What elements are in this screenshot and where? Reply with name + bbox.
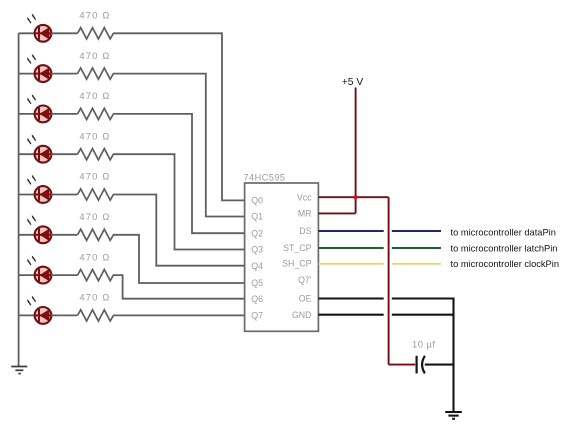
- LED LED2: [27, 54, 51, 82]
- wire: LED3 to resistor R3: [51, 113, 78, 115]
- wire: bus to LED2: [19, 73, 35, 75]
- svg-text:MR: MR: [298, 209, 312, 219]
- wire: R6 to IC pin Q5 (via vertical drop): [113, 235, 245, 283]
- wire: bus to LED7: [19, 274, 35, 276]
- svg-text:Q1: Q1: [251, 212, 263, 222]
- junction: +5V net dot: [354, 195, 358, 199]
- wire: LED5 to resistor R5: [51, 194, 78, 196]
- resistor R7 (470 ohm): [78, 270, 114, 281]
- wire: ground net vertical (black): [452, 298, 454, 412]
- svg-text:to microcontroller latchPin: to microcontroller latchPin: [451, 243, 558, 253]
- svg-text:470 Ω: 470 Ω: [79, 131, 110, 142]
- ground GND1 (left bus ground): [11, 367, 27, 374]
- LED LED4: [27, 134, 51, 162]
- wire: bus to LED6: [19, 234, 35, 236]
- LED LED1: [27, 13, 51, 41]
- wire: R8 to IC pin Q7: [113, 314, 245, 316]
- wire: bus to LED3: [19, 113, 35, 115]
- svg-text:Q6: Q6: [251, 294, 263, 304]
- svg-text:SH_CP: SH_CP: [282, 259, 311, 269]
- LED LED3: [27, 94, 51, 122]
- svg-text:Q4: Q4: [251, 261, 263, 271]
- capacitor C1 plates: [417, 356, 425, 374]
- svg-text:Q2: Q2: [251, 228, 263, 238]
- svg-text:Q7': Q7': [298, 275, 312, 285]
- svg-text:Q5: Q5: [251, 278, 263, 288]
- svg-text:Q3: Q3: [251, 245, 263, 255]
- resistor R1 (470 ohm): [78, 28, 114, 39]
- wire: R7 to IC pin Q6 (via vertical drop): [113, 275, 245, 299]
- svg-text:Q0: Q0: [251, 196, 263, 206]
- wire: SH_CP wire (yellow) to clockPin: [318, 263, 383, 265]
- wire: bus to LED5: [19, 194, 35, 196]
- wire: LED2 to resistor R2: [51, 73, 78, 75]
- wire: red horizontal into capacitor C1 positive plate: [389, 364, 416, 366]
- resistor R3 (470 ohm): [78, 108, 114, 119]
- LED LED6: [27, 215, 51, 243]
- wire: DS wire (blue) to dataPin: [318, 230, 383, 232]
- wire: R5 to IC pin Q4 (via vertical drop): [113, 195, 245, 266]
- svg-text:to microcontroller dataPin: to microcontroller dataPin: [451, 228, 556, 238]
- wire: OE to ground net (black): [318, 297, 383, 299]
- wire: Vcc to red net horizontal: [318, 196, 388, 198]
- wire: capacitor C1 to ground net: [425, 364, 454, 366]
- svg-text:470 Ω: 470 Ω: [79, 212, 110, 223]
- svg-text:470 Ω: 470 Ω: [79, 252, 110, 263]
- wire: bus to LED8: [19, 314, 35, 316]
- wire: MR to +5V horizontal: [318, 212, 355, 214]
- svg-text:470 Ω: 470 Ω: [79, 172, 110, 183]
- ground GND2 (right): [445, 412, 462, 419]
- wire: LED4 to resistor R4: [51, 153, 78, 155]
- svg-text:ST_CP: ST_CP: [283, 243, 311, 253]
- svg-text:74HC595: 74HC595: [244, 172, 286, 182]
- LED LED8: [27, 296, 51, 324]
- svg-text:10 µf: 10 µf: [412, 339, 436, 350]
- wire: LED8 to resistor R8: [51, 314, 78, 316]
- svg-text:GND: GND: [292, 310, 312, 320]
- wire: LED1 to resistor R1: [51, 32, 78, 34]
- svg-text:470 Ω: 470 Ω: [79, 11, 110, 22]
- svg-text:Vcc: Vcc: [297, 192, 312, 202]
- op-amp/IC U1 74HC595 body: [245, 183, 319, 331]
- svg-text:+5 V: +5 V: [342, 77, 364, 88]
- resistor R2 (470 ohm): [78, 68, 114, 79]
- svg-text:470 Ω: 470 Ω: [79, 293, 110, 304]
- wire: LED6 to resistor R6: [51, 234, 78, 236]
- wire: R4 to IC pin Q3 (via vertical drop): [113, 154, 245, 249]
- wire: LED7 to resistor R7: [51, 274, 78, 276]
- wire: bus to LED4: [19, 153, 35, 155]
- svg-text:to microcontroller clockPin: to microcontroller clockPin: [451, 259, 560, 269]
- resistor R6 (470 ohm): [78, 229, 114, 240]
- resistor R8 (470 ohm): [78, 310, 114, 321]
- resistor R4 (470 ohm): [78, 149, 114, 160]
- wire: left ground bus vertical: [18, 33, 20, 366]
- svg-text:470 Ω: 470 Ω: [79, 51, 110, 62]
- wire: red vertical to capacitor: [388, 197, 390, 364]
- wire: R2 to IC pin Q1 (via vertical drop): [113, 74, 245, 217]
- LED LED5: [27, 175, 51, 203]
- wire: +5V vertical red: [355, 88, 357, 214]
- svg-text:DS: DS: [299, 226, 311, 236]
- svg-text:470 Ω: 470 Ω: [79, 91, 110, 102]
- wire: R3 to IC pin Q2 (via vertical drop): [113, 114, 245, 233]
- svg-text:Q7: Q7: [251, 311, 263, 321]
- wire: ST_CP wire (green) to latchPin: [318, 247, 383, 249]
- wire: bus to LED1: [19, 32, 35, 34]
- resistor R5 (470 ohm): [78, 189, 114, 200]
- LED LED7: [27, 255, 51, 283]
- svg-text:OE: OE: [299, 294, 312, 304]
- wire: GND pin to ground net (black): [318, 314, 383, 316]
- wire: R1 to IC pin Q0 (via vertical drop): [113, 33, 245, 200]
